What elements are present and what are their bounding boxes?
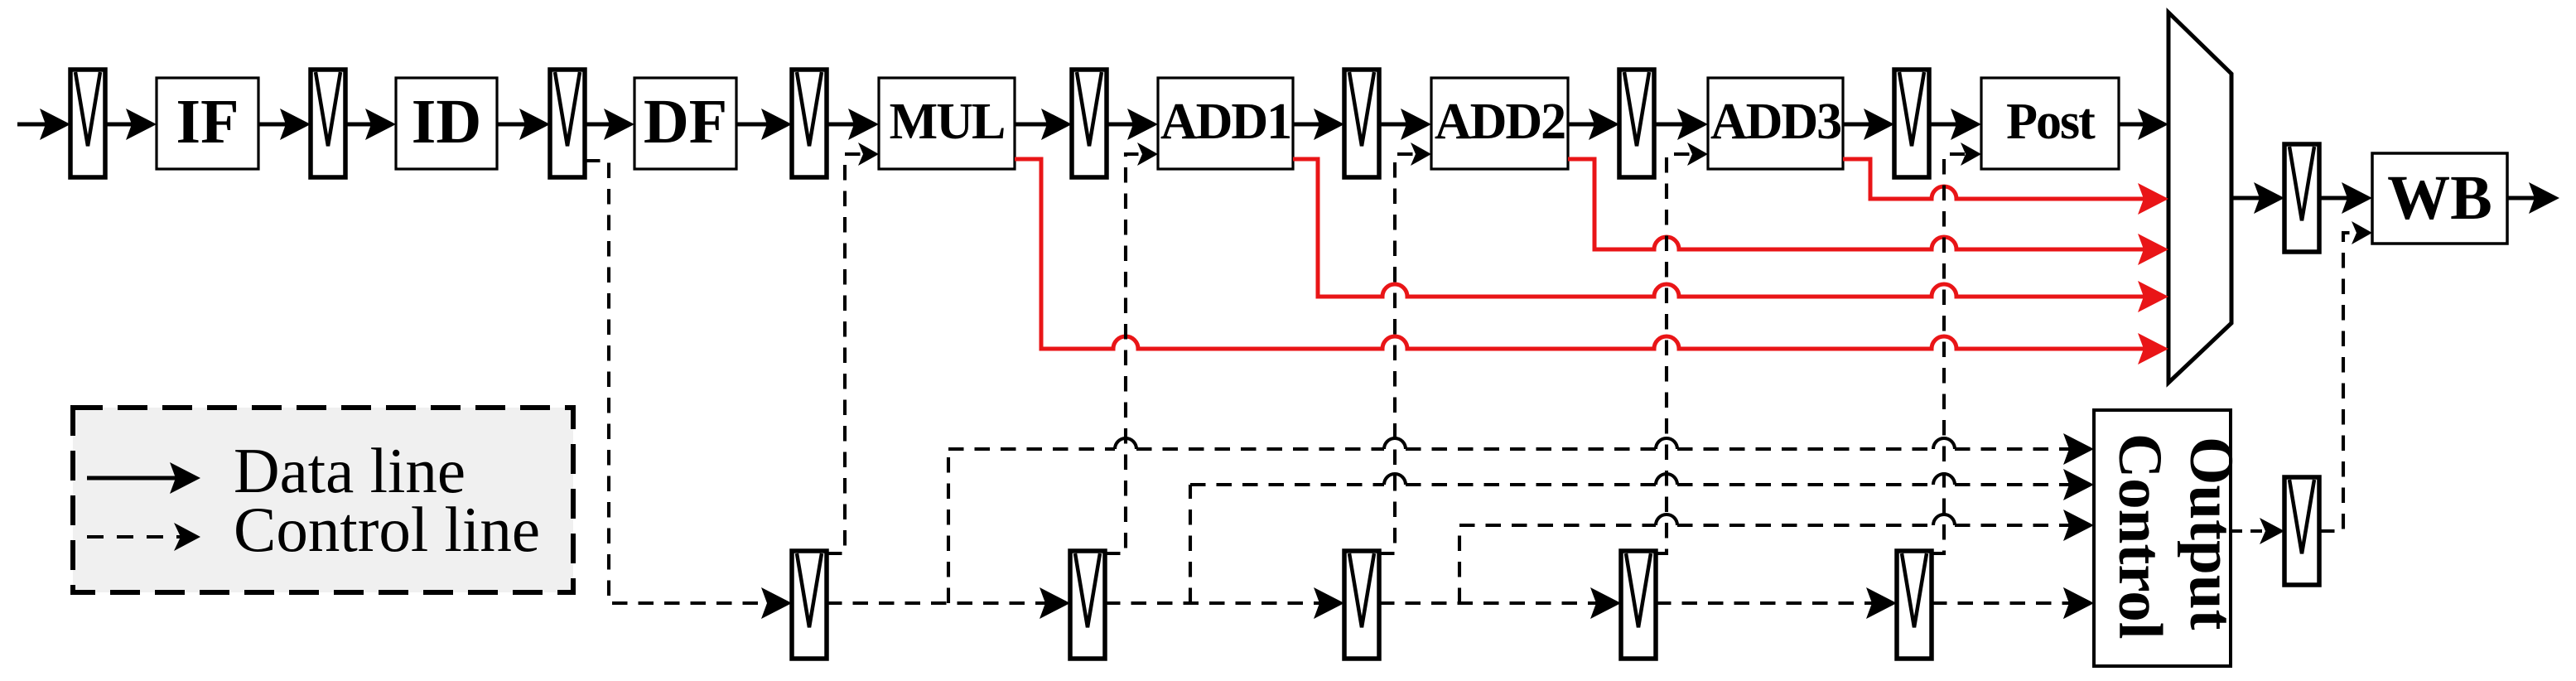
svg-text:Post: Post (2006, 94, 2096, 150)
svg-text:ID: ID (412, 87, 481, 157)
svg-text:WB: WB (2387, 163, 2492, 233)
svg-text:ADD1: ADD1 (1160, 94, 1290, 150)
svg-text:IF: IF (176, 87, 239, 157)
svg-text:Control line: Control line (234, 494, 540, 565)
svg-text:Control: Control (2106, 433, 2174, 640)
svg-text:ADD2: ADD2 (1435, 94, 1565, 150)
svg-text:ADD3: ADD3 (1710, 94, 1840, 150)
svg-text:DF: DF (644, 87, 727, 157)
svg-text:MUL: MUL (890, 94, 1005, 150)
svg-text:Output: Output (2177, 437, 2246, 630)
